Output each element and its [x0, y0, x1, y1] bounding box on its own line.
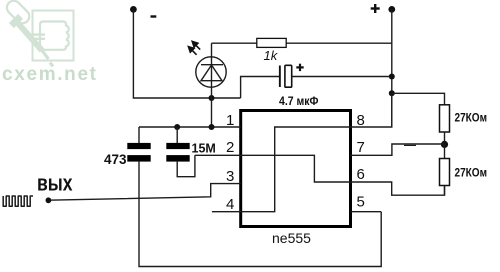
logo coil symbol: [40, 22, 69, 50]
capacitor C3 15M: [166, 143, 189, 162]
resistor R3 27K: [440, 159, 450, 186]
svg-text:2: 2: [226, 139, 234, 156]
node gnd pin1 junction: [209, 124, 215, 130]
capacitor C1 4.7uF polarized: [279, 65, 292, 87]
label minus: [151, 15, 157, 17]
wire LED branch vertical: [211, 43, 213, 127]
svg-text:15M: 15M: [192, 142, 216, 156]
op-amp U1 ne555 box: [241, 111, 351, 227]
node output terminal: [46, 197, 52, 203]
wire junction to R3: [444, 145, 446, 159]
svg-text:cxem.net: cxem.net: [2, 64, 97, 85]
wire R3 bottom: [444, 186, 446, 196]
wire R2 to junction: [444, 132, 446, 145]
wire pin7 jog artifact: [404, 144, 416, 146]
wire pin7 to R2 R3 junction: [351, 144, 445, 155]
node R2 R3 junction: [441, 141, 448, 148]
label plus of C1: [296, 64, 303, 71]
wire cap C1 left: [241, 77, 280, 99]
svg-text:473: 473: [104, 152, 127, 167]
node LED bottom junction: [209, 95, 215, 101]
wire 1k to plus rail: [286, 42, 392, 44]
wire cap C3 to pin2: [177, 155, 195, 176]
wire pin5 row: [351, 211, 382, 213]
LED arrows: [188, 41, 200, 54]
wire minus rail: [133, 9, 240, 98]
svg-text:вых: вых: [37, 171, 73, 196]
node C1 junction: [389, 74, 395, 80]
resistor R1 1k: [257, 38, 286, 47]
svg-text:1k: 1k: [264, 48, 279, 63]
wire 1k row: [212, 42, 257, 44]
wire pin4 to pin8 tie: [212, 93, 392, 211]
svg-text:4.7 мкФ: 4.7 мкФ: [279, 96, 319, 108]
svg-text:6: 6: [357, 166, 365, 183]
node resistor feed junction: [389, 90, 395, 96]
LED D1: [196, 57, 226, 87]
svg-text:ne555: ne555: [272, 230, 311, 246]
wire pin1 row: [139, 126, 241, 128]
svg-text:5: 5: [357, 194, 365, 211]
node plus terminal: [388, 6, 395, 13]
resistor R2 27K: [440, 105, 450, 132]
svg-text:1: 1: [226, 112, 234, 129]
svg-text:7: 7: [357, 139, 365, 156]
node minus terminal: [130, 6, 137, 13]
wire cap C3 top: [176, 127, 178, 143]
wire plus rail: [391, 9, 393, 127]
logo screwdriver: [4, 0, 53, 67]
svg-text:4: 4: [226, 196, 234, 213]
wire pin6 to R3 bottom: [351, 182, 445, 195]
square wave symbol: [3, 196, 33, 206]
watermark logo cxem.net: [2, 0, 97, 85]
wire pin3 output: [48, 184, 240, 201]
svg-text:27КОм: 27КОм: [455, 168, 488, 180]
logo capacitor bars: [34, 33, 46, 40]
node cap 15M top junction: [174, 124, 180, 130]
logo sheet: [33, 11, 74, 61]
svg-text:27КОм: 27КОм: [455, 113, 488, 125]
label plus: [371, 4, 380, 13]
wire cap C2 top: [138, 127, 140, 143]
capacitor C2 473: [127, 143, 150, 162]
svg-text:3: 3: [226, 168, 234, 185]
wire cap C1 right: [292, 76, 392, 78]
wire feed to R2: [392, 93, 445, 105]
wire cap C2 bottom to bottom rail: [139, 162, 381, 267]
svg-text:8: 8: [357, 112, 365, 129]
wire pin2 row to pin6: [195, 155, 351, 182]
